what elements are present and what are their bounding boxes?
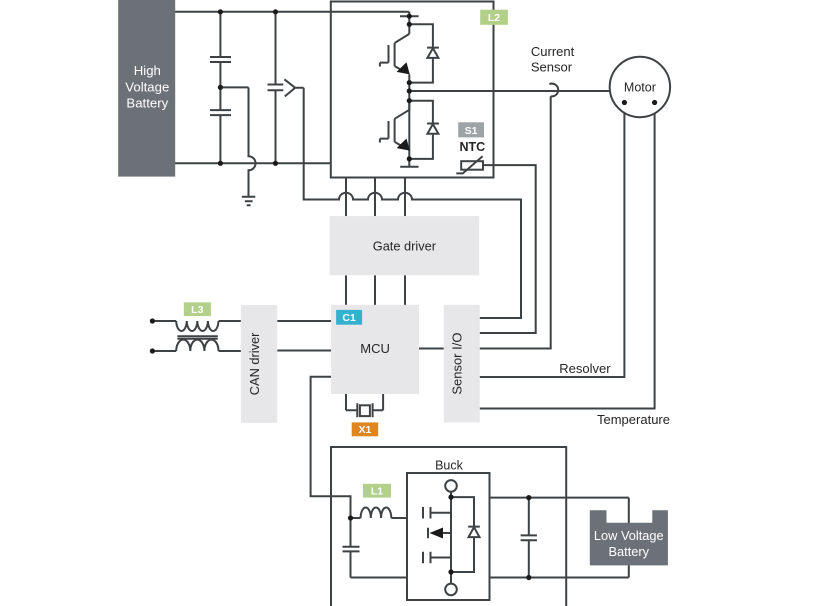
wire ground drop with hop over DC- rail: [249, 87, 256, 196]
transistor buck high-side FET: [423, 507, 451, 519]
capacitor Y-cap plates: [268, 85, 284, 91]
crystal X1 body: [360, 405, 370, 416]
wire MCU to Sensor I/O: [419, 348, 444, 350]
svg-text:Motor: Motor: [624, 81, 656, 95]
thermistor NTC diagonal: [456, 156, 482, 173]
node inverter D2 top: [407, 98, 412, 103]
node DC+ terminal bar: [400, 15, 419, 17]
node dc-link bottom: [218, 161, 223, 166]
capacitor buck output vertical: [528, 498, 530, 578]
terminal buck top circle: [445, 480, 457, 492]
wire LV battery right drop: [628, 498, 630, 578]
terminal buck bottom circle: [445, 584, 457, 596]
wire inverter center rail: [408, 12, 410, 167]
node inverter DC+ bar: [407, 14, 412, 19]
diode D2 triangle: [427, 124, 438, 134]
battery LV Low Voltage Battery: [590, 510, 668, 565]
wire choke upper to CAN driver: [219, 320, 241, 322]
wire L1 to buck block: [391, 517, 407, 519]
wire DC+ top rail from battery to inverter: [175, 11, 409, 13]
svg-text:Low Voltage: Low Voltage: [594, 528, 664, 543]
wire gate driver to MCU: [346, 275, 405, 305]
svg-text:Sensor: Sensor: [531, 60, 573, 75]
node inverter D2 bottom: [407, 156, 412, 161]
switch arrow bar: [428, 528, 451, 539]
node motor resolver terminal: [622, 100, 627, 105]
wire buck center rail: [450, 492, 452, 584]
thermistor NTC body: [461, 161, 483, 170]
battery HV High Voltage Battery: [118, 0, 175, 177]
inverter module box: [331, 2, 494, 178]
wire CAN bus lower lead: [152, 350, 176, 352]
capacitor buck output plates: [521, 535, 537, 540]
svg-text:X1: X1: [358, 424, 371, 436]
node dc-link top: [218, 9, 223, 14]
block buck outer box: [331, 447, 566, 606]
inductor L3 choke lower winding: [176, 340, 218, 351]
crystal X1 plates: [357, 403, 372, 417]
svg-text:L2: L2: [488, 12, 500, 24]
wire choke lower to CAN driver: [219, 350, 241, 352]
svg-text:High: High: [134, 63, 161, 78]
wire midpoint tap to ground: [220, 86, 248, 88]
wire CAN bus upper lead: [152, 320, 176, 322]
wire gate lines inverter to gate driver: [346, 178, 405, 217]
svg-text:C1: C1: [342, 312, 356, 324]
svg-text:Sensor I/O: Sensor I/O: [450, 333, 465, 395]
svg-text:Gate driver: Gate driver: [373, 238, 437, 253]
svg-text:L3: L3: [191, 304, 203, 316]
node dc-link midpoint: [218, 85, 223, 90]
transistor buck low-side FET: [423, 552, 451, 564]
svg-text:MCU: MCU: [360, 341, 390, 356]
label X1: [352, 422, 379, 436]
diode buck freewheel branch: [451, 497, 480, 572]
capacitor buck input vertical: [350, 518, 352, 578]
ground: [242, 197, 256, 206]
transistor Q1 emitter arrow: [397, 62, 410, 74]
node CAN terminal upper: [150, 318, 155, 323]
diode D2 lower freewheel branch: [409, 101, 439, 159]
motor M: [610, 57, 670, 117]
wire DC-link sense line to Sensor I/O with hops over gate lines: [304, 88, 521, 318]
node inverter D1 bottom: [407, 80, 412, 85]
block Gate driver: [330, 216, 480, 275]
capacitor Y-cap branch vertical wire: [275, 12, 277, 164]
svg-text:L1: L1: [371, 485, 383, 497]
node output cap bottom: [526, 575, 531, 580]
capacitor buck input plates: [343, 547, 360, 552]
svg-text:Battery: Battery: [126, 96, 168, 111]
svg-text:Current: Current: [531, 44, 575, 59]
block CAN driver: [241, 305, 277, 423]
label C1: [336, 310, 362, 325]
current sensor arc: [549, 84, 558, 97]
diode buck triangle: [469, 527, 480, 537]
inductor L1: [361, 507, 392, 518]
label L1: [363, 484, 391, 498]
capacitor C-link2 plates: [210, 110, 231, 115]
svg-text:Resolver: Resolver: [559, 361, 611, 376]
label L2: [480, 10, 508, 25]
wire LV ground rail: [351, 577, 629, 579]
switch arrow head: [430, 528, 444, 539]
svg-text:Temperature: Temperature: [597, 412, 670, 427]
capacitor dc-link branch vertical wire: [219, 12, 221, 164]
voltage sense arrow: [284, 79, 303, 96]
transistor Q2 lower IGBT: [380, 101, 409, 148]
diode D1 triangle: [427, 48, 438, 58]
node inverter D1 top: [407, 22, 412, 27]
inductor L3 choke core: [177, 336, 217, 339]
svg-text:Voltage: Voltage: [125, 79, 169, 94]
node motor temperature terminal: [652, 100, 657, 105]
svg-text:Battery: Battery: [609, 544, 650, 559]
crystal X1 leads: [346, 394, 383, 410]
transistor Q2 emitter arrow: [397, 139, 410, 151]
wire NTC to Sensor I/O: [480, 165, 536, 333]
wire L1 input node branch: [351, 517, 361, 519]
node Y-cap top: [273, 9, 278, 14]
wire temperature from motor to Sensor I/O: [480, 103, 655, 409]
capacitor C-link1 plates: [210, 57, 231, 62]
wire buck output rail: [490, 497, 629, 499]
label L3: [184, 302, 211, 316]
node CAN terminal lower: [150, 348, 155, 353]
wire CAN driver to MCU lower: [277, 350, 331, 352]
wire inverter phase output to motor: [409, 90, 610, 92]
wire DC- bottom rail from battery to inverter: [175, 162, 331, 164]
node inverter phase output: [407, 88, 412, 93]
block buck converter IC box: [407, 473, 490, 600]
block MCU: [331, 305, 419, 394]
wire current sensor to Sensor I/O: [480, 96, 551, 348]
inductor L3 choke upper winding: [176, 321, 218, 331]
node output cap top: [526, 495, 531, 500]
text Current Sensor: [531, 44, 575, 75]
node Y-cap bottom: [273, 161, 278, 166]
wire resolver from motor to Sensor I/O: [480, 103, 625, 378]
svg-text:S1: S1: [465, 125, 478, 137]
svg-text:CAN driver: CAN driver: [247, 332, 262, 395]
node DC- terminal bar: [400, 166, 418, 168]
block Sensor I/O: [444, 305, 480, 423]
wire CAN driver to MCU upper: [277, 320, 331, 322]
node L1 input: [348, 515, 353, 520]
node buck rail top: [448, 495, 453, 500]
svg-text:NTC: NTC: [460, 140, 486, 154]
diode D1 upper freewheel branch: [409, 24, 439, 82]
transistor Q1 upper IGBT: [380, 34, 409, 72]
label S1: [458, 122, 484, 137]
wire MCU supply feed from buck: [311, 377, 351, 518]
svg-text:Buck: Buck: [435, 458, 464, 472]
node buck rail bottom: [448, 569, 453, 574]
